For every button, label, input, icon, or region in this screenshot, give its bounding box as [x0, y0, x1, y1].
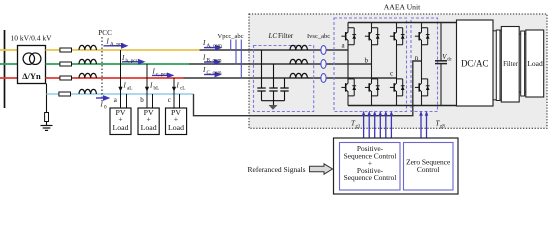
svg-text:b, pcc: b, pcc: [126, 58, 139, 64]
svg-text:I: I: [121, 54, 125, 62]
svg-text:A, com: A, com: [207, 43, 222, 49]
svg-text:Control: Control: [417, 165, 440, 174]
svg-text:I: I: [100, 101, 104, 109]
svg-text:aL: aL: [127, 86, 132, 92]
svg-text:Referanced Signals: Referanced Signals: [248, 165, 306, 174]
svg-text:A, pcc: A, pcc: [110, 42, 124, 48]
svg-text:Filter: Filter: [278, 32, 294, 40]
svg-text:DC/AC: DC/AC: [461, 59, 489, 69]
svg-text:c: c: [168, 96, 171, 104]
svg-text:I: I: [202, 39, 206, 47]
svg-text:b: b: [365, 57, 369, 65]
svg-text:dc: dc: [447, 57, 452, 62]
svg-text:+: +: [146, 114, 151, 123]
svg-text:Load: Load: [168, 123, 184, 132]
svg-text:B, com: B, com: [207, 58, 222, 64]
svg-text:c: c: [390, 70, 393, 78]
svg-text:I: I: [202, 66, 206, 74]
svg-text:0: 0: [104, 105, 107, 111]
svg-text:+: +: [174, 114, 179, 123]
svg-text:a: a: [114, 96, 118, 104]
svg-text:b: b: [140, 96, 144, 104]
svg-text:I: I: [202, 54, 206, 62]
svg-text:+: +: [118, 114, 123, 123]
svg-text:I: I: [152, 68, 156, 76]
svg-text:AAEA Unit: AAEA Unit: [384, 3, 421, 12]
svg-text:Vpcc_abc: Vpcc_abc: [218, 33, 244, 40]
svg-text:I: I: [149, 82, 153, 90]
svg-text:Filter: Filter: [503, 61, 518, 68]
svg-text:I: I: [176, 82, 180, 90]
svg-text:g8: g8: [440, 125, 445, 130]
svg-text:cL: cL: [180, 86, 185, 92]
svg-text:n: n: [415, 54, 419, 62]
svg-text:I: I: [106, 38, 110, 46]
svg-text:Load: Load: [112, 123, 128, 132]
svg-text:LC: LC: [268, 32, 278, 40]
svg-text:Ivsc_abc: Ivsc_abc: [307, 33, 330, 40]
svg-text:Δ/Yn: Δ/Yn: [22, 71, 41, 81]
svg-text:bL: bL: [154, 86, 160, 92]
svg-text:I: I: [123, 82, 127, 90]
svg-text:Load: Load: [141, 123, 157, 132]
svg-text:C, com: C, com: [207, 70, 222, 76]
svg-text:Load: Load: [527, 59, 543, 68]
svg-text:10 kV/0.4 kV: 10 kV/0.4 kV: [11, 34, 53, 43]
svg-text:Sequence Control: Sequence Control: [344, 173, 397, 182]
svg-text:PCC: PCC: [98, 29, 112, 37]
svg-text:c, pcc: c, pcc: [156, 72, 169, 78]
svg-text:g1: g1: [356, 125, 361, 130]
